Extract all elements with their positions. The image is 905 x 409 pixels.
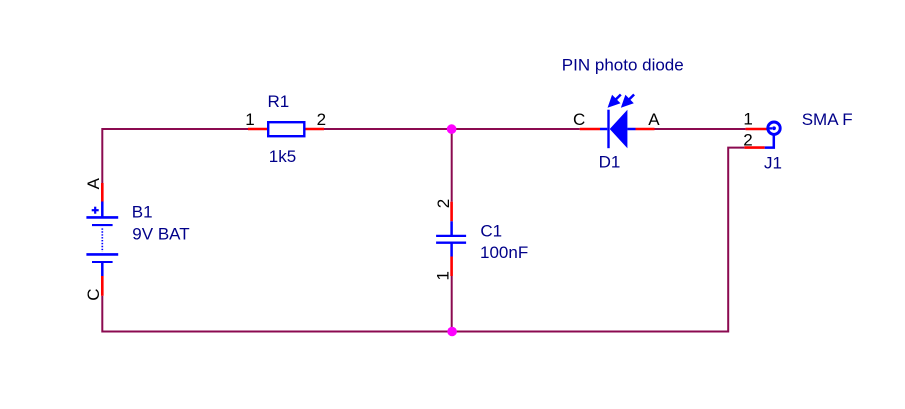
svg-text:100nF: 100nF [480, 243, 528, 262]
svg-text:1k5: 1k5 [269, 147, 296, 166]
svg-text:C: C [84, 289, 103, 301]
svg-text:1: 1 [743, 109, 752, 128]
svg-text:2: 2 [743, 130, 752, 149]
svg-text:B1: B1 [132, 202, 153, 221]
svg-text:A: A [84, 177, 103, 189]
svg-text:9V BAT: 9V BAT [132, 225, 189, 244]
svg-text:D1: D1 [599, 152, 621, 171]
svg-text:1: 1 [433, 271, 452, 280]
svg-text:A: A [648, 110, 660, 129]
svg-text:C: C [573, 110, 585, 129]
svg-text:J1: J1 [764, 153, 782, 172]
svg-text:1: 1 [245, 110, 254, 129]
svg-text:SMA F: SMA F [802, 110, 853, 129]
svg-text:2: 2 [434, 199, 453, 208]
svg-text:C1: C1 [480, 221, 502, 240]
svg-text:PIN photo diode: PIN photo diode [562, 55, 684, 74]
svg-text:R1: R1 [268, 92, 290, 111]
svg-text:2: 2 [317, 110, 326, 129]
